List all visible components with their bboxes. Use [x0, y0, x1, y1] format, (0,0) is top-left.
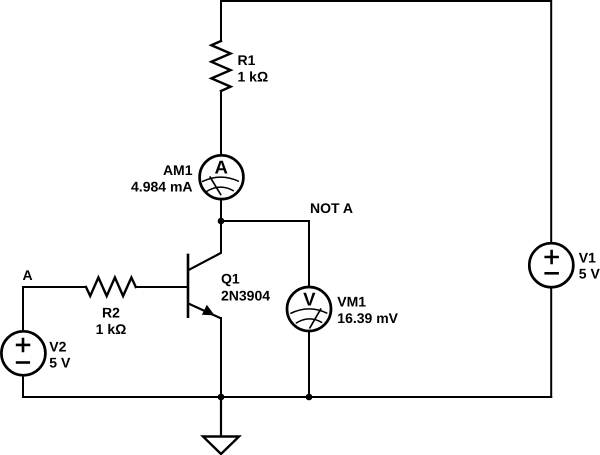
svg-text:R1: R1 — [238, 52, 256, 68]
svg-text:5 V: 5 V — [49, 355, 71, 371]
node junction collector/NOT A — [218, 218, 225, 225]
wire emitter vertical to ground rail — [220, 318, 222, 397]
wire V2 bottom lead — [22, 375, 24, 397]
svg-text:1 kΩ: 1 kΩ — [238, 69, 269, 85]
wire from junction to VM1 top — [221, 221, 309, 287]
ground — [203, 397, 239, 454]
ammeter AM1 — [200, 155, 244, 199]
svg-text:1 kΩ: 1 kΩ — [96, 321, 127, 337]
voltage source V1 — [529, 243, 573, 287]
svg-text:4.984 mA: 4.984 mA — [131, 179, 192, 195]
resistor R1 — [211, 41, 230, 91]
wire VM1 bottom lead — [308, 331, 310, 397]
wire V1 bottom lead — [550, 287, 552, 397]
wire base from V2 corner through R2 to transistor base — [23, 286, 188, 288]
wire from AM1 bottom to collector junction — [220, 199, 222, 221]
voltmeter VM1 — [287, 287, 331, 331]
svg-text:2N3904: 2N3904 — [221, 288, 270, 304]
voltage source V2 — [1, 331, 45, 375]
svg-text:AM1: AM1 — [163, 162, 193, 178]
svg-text:5 V: 5 V — [579, 266, 600, 282]
svg-text:NOT A: NOT A — [310, 200, 353, 216]
wire collector vertical — [220, 221, 222, 253]
wire bottom rail — [23, 396, 551, 398]
svg-text:V: V — [303, 289, 316, 310]
svg-text:A: A — [23, 267, 33, 283]
svg-text:R2: R2 — [102, 305, 120, 321]
resistor R2 — [86, 278, 136, 297]
node junction VM1/ground rail — [306, 394, 313, 401]
svg-text:16.39 mV: 16.39 mV — [337, 310, 398, 326]
transistor Q1 — [188, 253, 221, 319]
svg-text:Q1: Q1 — [221, 270, 240, 286]
node junction emitter/ground — [218, 394, 225, 401]
wire from R1 bottom to AM1 top — [220, 91, 222, 155]
svg-text:V2: V2 — [49, 339, 66, 355]
wire V2 top lead — [22, 287, 24, 331]
svg-text:VM1: VM1 — [337, 294, 366, 310]
wire top rail from R1 top-left corner to V1 stem — [221, 1, 551, 243]
svg-text:V1: V1 — [579, 250, 596, 266]
svg-text:A: A — [214, 157, 227, 178]
